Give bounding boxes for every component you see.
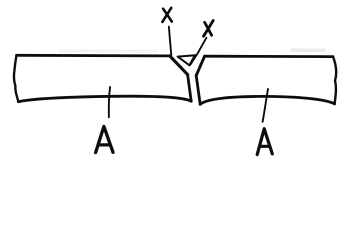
label X1 leader line <box>169 27 171 56</box>
label X2 glyph <box>204 21 214 37</box>
label A2 leader line <box>263 89 268 122</box>
label X2 arrowhead ink blob <box>191 57 195 64</box>
label X2 open arrowhead <box>178 55 196 65</box>
plate A right: groove bevel face (X) <box>196 56 204 75</box>
plate A left: groove bevel face (X) <box>170 56 188 75</box>
plate A right: root face <box>196 76 200 105</box>
plate A right: right edge <box>333 57 336 104</box>
plate A right: bottom edge <box>200 96 334 104</box>
label A2 glyph <box>257 129 272 155</box>
plate A left: root face <box>188 75 192 102</box>
plate A right: top edge <box>205 55 333 58</box>
plate A left: top edge <box>17 54 170 57</box>
label X2 leader line <box>190 38 206 64</box>
label A1 leader line <box>109 87 110 117</box>
plate A left: left edge <box>14 55 18 101</box>
label A1 glyph <box>96 126 113 152</box>
scan smudge above left plate <box>58 49 326 53</box>
plate A left: bottom edge <box>18 96 191 102</box>
label X1 glyph <box>162 8 171 22</box>
